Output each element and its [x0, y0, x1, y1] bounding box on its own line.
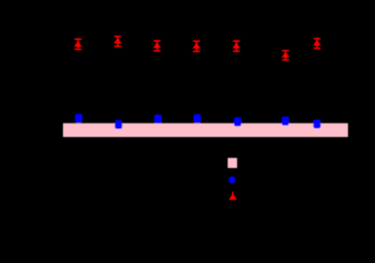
blue errorbar point 4	[194, 114, 201, 123]
blue errorbar point 6	[282, 117, 289, 126]
red errorbar point 1	[74, 38, 82, 50]
blue errorbar point 1	[75, 114, 82, 123]
red errorbar point 7	[313, 38, 321, 49]
blue errorbar point 5	[234, 117, 241, 126]
red errorbar point 6	[282, 50, 290, 61]
red errorbar point 2	[114, 36, 122, 47]
red errorbar point 4	[193, 40, 201, 52]
blue errorbar point 3	[154, 115, 161, 124]
legend band swatch	[228, 158, 237, 168]
legend blue marker	[229, 176, 236, 184]
legend red marker	[229, 192, 237, 200]
blue errorbar point 7	[313, 120, 320, 129]
red errorbar point 3	[153, 40, 161, 52]
blue errorbar point 2	[115, 120, 122, 129]
red errorbar point 5	[232, 40, 240, 52]
pink uncertainty band	[63, 123, 348, 137]
